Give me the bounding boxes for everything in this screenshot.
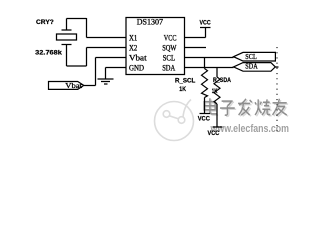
svg-text:VCC: VCC [208,130,220,137]
svg-text:CRY?: CRY? [36,19,54,26]
svg-text:VCC: VCC [164,34,177,43]
svg-text:1K: 1K [179,86,186,93]
svg-text:Vbat: Vbat [129,53,147,62]
svg-text:R_SCL: R_SCL [175,78,195,85]
svg-text:SCL: SCL [163,54,176,63]
svg-text:X1: X1 [129,34,137,43]
svg-text:VCC: VCC [198,115,210,122]
svg-text:X2: X2 [129,44,137,53]
svg-text:Vbat: Vbat [65,81,83,90]
svg-text:SDA: SDA [245,61,258,70]
svg-text:1K: 1K [212,88,218,95]
svg-text:GND: GND [129,64,144,73]
svg-text:SDA: SDA [162,64,175,73]
svg-text:DS1307: DS1307 [137,17,163,27]
svg-text:32.768k: 32.768k [35,49,62,56]
svg-text:VCC: VCC [200,20,211,27]
svg-text:SCL: SCL [245,52,257,61]
svg-text:R_SDA: R_SDA [213,77,231,84]
svg-text:SQW: SQW [162,44,177,53]
svg-text:www.elecfans.com: www.elecfans.com [210,123,289,135]
